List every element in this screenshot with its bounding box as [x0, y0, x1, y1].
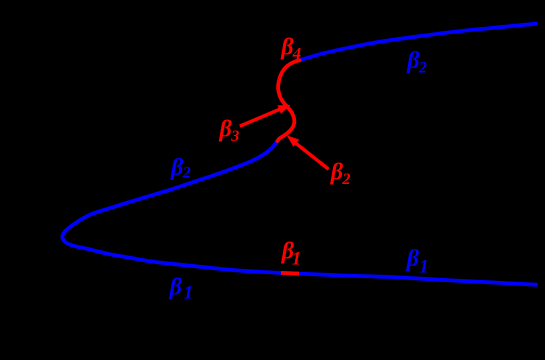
svg-text:β: β	[406, 246, 420, 272]
svg-text:1: 1	[184, 284, 193, 304]
arrow from beta3 label to S-curve	[240, 105, 291, 126]
label beta1 (red, above red segment)	[281, 239, 301, 270]
svg-text:1: 1	[292, 250, 301, 270]
label beta2 (red, below-right of S)	[330, 160, 351, 188]
blue curve: lower branch + fold + middle branch (stable/unstable equilibria)	[62, 141, 536, 285]
svg-text:3: 3	[230, 128, 239, 145]
label beta3 (red, left of S)	[219, 117, 240, 145]
label beta1 (blue, lower-left)	[169, 274, 193, 303]
svg-text:2: 2	[182, 164, 191, 181]
red segment on lower branch (beta1 detachment interval)	[281, 271, 299, 276]
svg-text:4: 4	[292, 44, 302, 63]
label beta2 (blue, upper branch)	[406, 48, 427, 76]
svg-text:β: β	[169, 274, 183, 300]
label beta1 (blue, lower-right)	[406, 246, 429, 277]
blue curve: upper branch	[300, 24, 537, 61]
label beta4 (red, top of S)	[280, 35, 301, 63]
svg-text:1: 1	[419, 257, 428, 277]
red S-shaped middle section of curve	[278, 60, 300, 141]
arrow from red beta2 label to S-curve	[287, 135, 329, 169]
label beta2 (blue, middle branch)	[170, 155, 191, 182]
svg-text:2: 2	[341, 171, 350, 188]
svg-text:2: 2	[418, 59, 427, 76]
